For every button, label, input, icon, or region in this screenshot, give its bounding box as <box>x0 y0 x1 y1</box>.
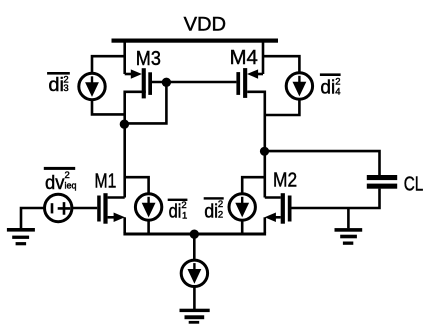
wire ground stem right <box>347 208 350 228</box>
wire M2 source down <box>263 217 266 233</box>
wire M4 source from VDD <box>262 40 265 74</box>
wire tail stem <box>193 234 196 260</box>
wire output to CL <box>265 151 380 175</box>
svg-text:4: 4 <box>335 87 340 98</box>
wire input source to left ground <box>21 208 44 228</box>
svg-text:VDD: VDD <box>184 13 227 35</box>
wire M3 source lead <box>125 73 132 76</box>
svg-text:di: di <box>204 200 218 222</box>
wire di3 top lead <box>92 56 125 72</box>
M2 label <box>273 169 297 192</box>
wire M1 drain lead <box>108 196 125 199</box>
svg-text:M4: M4 <box>230 46 258 69</box>
wire di1 bottom lead <box>147 221 150 233</box>
wire M1 source down <box>123 217 126 233</box>
svg-text:2: 2 <box>218 210 223 221</box>
svg-text:CL: CL <box>404 173 424 195</box>
current source di3 <box>79 73 105 99</box>
di1 noise label <box>168 199 188 223</box>
VDD rail <box>112 39 279 43</box>
svg-text:3: 3 <box>63 83 68 94</box>
wire M4 drain to output <box>247 92 265 198</box>
wire M4 source lead <box>257 73 263 76</box>
svg-text:di: di <box>320 77 335 99</box>
ground right <box>335 228 363 245</box>
wire M2 drain lead <box>265 196 281 199</box>
wire tail rail <box>123 233 266 236</box>
ground bottom <box>180 309 210 324</box>
wire M3 diode connection <box>125 82 167 123</box>
svg-text:dv: dv <box>45 172 65 194</box>
M3 label <box>136 47 161 70</box>
wire M3 drain to mirror node <box>125 92 146 198</box>
wire di4 top lead <box>263 56 299 72</box>
wire di1 top lead <box>125 177 149 193</box>
node gate junction <box>162 78 171 87</box>
CL label <box>404 173 424 195</box>
svg-text:M1: M1 <box>95 169 117 192</box>
svg-text:ieq: ieq <box>65 180 77 190</box>
svg-text:di: di <box>48 74 64 96</box>
capacitor CL <box>367 175 397 189</box>
wire M3 source from VDD <box>123 40 126 74</box>
svg-text:M2: M2 <box>273 169 297 192</box>
wire di2 top lead <box>242 177 265 193</box>
di4 noise label <box>320 73 341 98</box>
current source di2 <box>229 194 255 220</box>
M4 label <box>230 46 258 69</box>
transistor M3 (PMOS, source arrow) <box>131 68 152 98</box>
current source tail <box>181 260 207 286</box>
VDD label <box>184 13 227 35</box>
wire tail source to ground <box>193 287 196 309</box>
ground left <box>7 228 35 245</box>
current source di1 <box>135 194 161 220</box>
di2 noise label <box>204 197 224 222</box>
transistor M1 (NMOS, source arrow) <box>97 193 125 224</box>
wire gate bus M3-M4 <box>152 81 236 84</box>
svg-text:di: di <box>169 200 182 222</box>
voltage source dv_ieq <box>45 194 72 221</box>
svg-text:1: 1 <box>182 210 187 221</box>
node mirror junction <box>120 120 129 129</box>
wire CL bottom to M2 gate <box>292 189 380 208</box>
wire input to M1 gate <box>72 207 97 210</box>
dv_ieq noise label <box>44 167 77 194</box>
current source di4 <box>286 73 312 99</box>
transistor M2 (NMOS, source arrow) <box>265 193 292 224</box>
wire di2 bottom lead <box>241 221 244 233</box>
svg-text:2: 2 <box>218 199 223 210</box>
svg-text:M3: M3 <box>136 47 161 70</box>
node tail junction <box>190 230 199 239</box>
wire di4 bottom lead <box>265 100 300 115</box>
node output junction <box>260 147 269 156</box>
di3 noise label <box>47 72 70 96</box>
transistor M4 (PMOS, source arrow) <box>236 68 258 98</box>
M1 label <box>95 169 117 192</box>
wire di3 bottom lead <box>92 101 125 115</box>
